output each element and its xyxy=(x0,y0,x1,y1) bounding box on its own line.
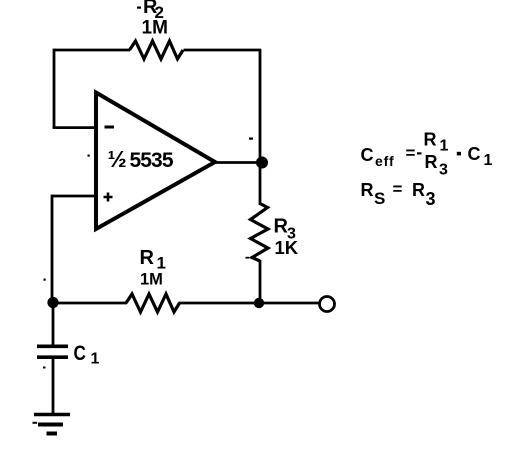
speck near R2 xyxy=(137,7,141,9)
op-amp U1 triangle xyxy=(96,93,215,230)
junction dot bottom-right node xyxy=(254,298,264,308)
svg-text:C: C xyxy=(74,341,86,365)
svg-text:1: 1 xyxy=(440,138,449,155)
svg-text:1: 1 xyxy=(484,152,493,169)
svg-text:=: = xyxy=(406,144,416,163)
junction dot output node xyxy=(256,157,268,169)
svg-text:1M: 1M xyxy=(142,18,168,39)
ground xyxy=(34,413,70,416)
speck above bottom-left node xyxy=(44,279,46,281)
wire inverting input stub xyxy=(53,126,96,129)
wire bottom horizontal xyxy=(52,302,127,305)
speck near output wire xyxy=(249,138,253,140)
svg-text:R: R xyxy=(425,152,438,172)
svg-text:R: R xyxy=(140,247,155,269)
wire left feedback vertical xyxy=(53,49,56,128)
resistor R3 xyxy=(251,204,269,262)
junction dot bottom-left node xyxy=(47,297,58,308)
wire right vertical upper (feedback down) xyxy=(259,50,262,162)
svg-text:3: 3 xyxy=(426,189,436,209)
plus sign of op-amp xyxy=(104,193,113,202)
resistor R1 xyxy=(126,294,180,312)
wire non-inverting input stub xyxy=(52,195,96,198)
svg-text:1M: 1M xyxy=(140,271,163,289)
svg-text:C: C xyxy=(361,145,374,165)
svg-text:=: = xyxy=(393,180,403,199)
wire top-left horizontal segment xyxy=(54,49,130,52)
wire op-amp output xyxy=(213,161,262,164)
minus sign of op-amp xyxy=(105,126,115,129)
output terminal circle xyxy=(320,297,335,312)
wire capacitor bottom lead xyxy=(52,359,55,414)
svg-text:S: S xyxy=(374,189,385,208)
svg-text:C: C xyxy=(468,144,481,164)
wire top-right horizontal segment xyxy=(184,49,262,52)
svg-text:eff: eff xyxy=(375,153,395,169)
svg-text:3: 3 xyxy=(439,162,448,179)
svg-text:1: 1 xyxy=(91,351,100,368)
wire right vertical lower xyxy=(259,260,262,303)
speck left of plus wire xyxy=(88,155,90,157)
svg-text:5535: 5535 xyxy=(130,149,174,172)
resistor R2 xyxy=(130,41,184,59)
speck below capacitor xyxy=(43,367,46,369)
wire left lower vertical xyxy=(51,195,54,303)
svg-text:R: R xyxy=(412,180,425,200)
svg-text:R: R xyxy=(361,180,374,200)
speck left of R3 xyxy=(246,257,250,259)
svg-text:½: ½ xyxy=(108,146,127,172)
svg-text:R: R xyxy=(424,130,437,150)
wire right vertical to R3 xyxy=(259,162,262,205)
wire capacitor top lead xyxy=(52,303,55,345)
svg-text:1K: 1K xyxy=(275,237,299,258)
capacitor C1 xyxy=(37,346,68,357)
